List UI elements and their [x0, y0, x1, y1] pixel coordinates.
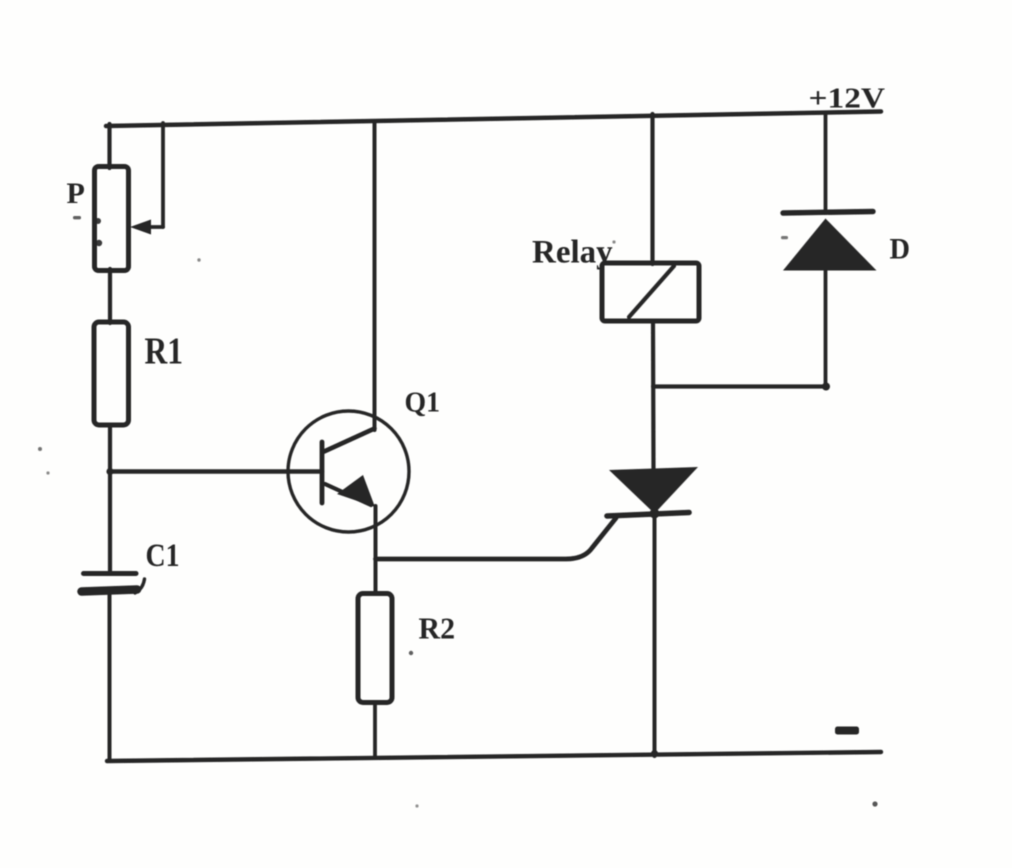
relay K1	[602, 263, 699, 321]
wire rail to relay	[650, 114, 654, 264]
wire node to C1	[108, 472, 112, 572]
svg-text:R1: R1	[145, 331, 184, 373]
potentiometer P	[95, 167, 129, 271]
node junction under diode	[822, 383, 830, 391]
ground rail (negative)	[107, 752, 881, 761]
svg-text:+12V: +12V	[809, 83, 886, 115]
minus label	[835, 727, 859, 735]
wire diode to junction	[824, 268, 828, 387]
wiper arrow of P	[130, 123, 163, 235]
node on ground rail	[651, 750, 658, 757]
wire R1 to base node	[108, 425, 112, 472]
svg-text:P: P	[67, 177, 85, 210]
svg-text:Relay: Relay	[532, 235, 613, 271]
wire C1 to ground rail	[108, 595, 112, 760]
transistor Q1	[288, 411, 409, 532]
wire junction to diode bottom	[653, 384, 826, 388]
resistor R1	[94, 322, 129, 425]
wire emitter vertical	[374, 506, 378, 594]
svg-text:R2: R2	[419, 611, 456, 646]
node base junction	[106, 468, 113, 475]
wire SCR cathode to ground rail	[653, 513, 657, 756]
wire relay to junction and SCR anode	[651, 321, 656, 470]
thyristor (SCR)	[607, 467, 698, 516]
wire base horizontal	[110, 469, 322, 474]
resistor R2	[358, 594, 392, 703]
power rail +12V	[106, 112, 881, 127]
wire collector vertical	[373, 121, 377, 430]
wire P to R1	[108, 269, 112, 323]
svg-text:Q1: Q1	[405, 388, 441, 419]
svg-text:D: D	[890, 234, 911, 266]
diode D	[783, 212, 877, 271]
wire R2 to ground rail	[373, 703, 377, 758]
wire rail to P top	[107, 124, 111, 168]
wire rail to diode cathode	[824, 113, 828, 213]
node SCR cathode	[650, 509, 660, 519]
wire gate run to SCR	[376, 518, 617, 559]
svg-text:C1: C1	[146, 538, 180, 574]
capacitor C1	[82, 574, 145, 594]
